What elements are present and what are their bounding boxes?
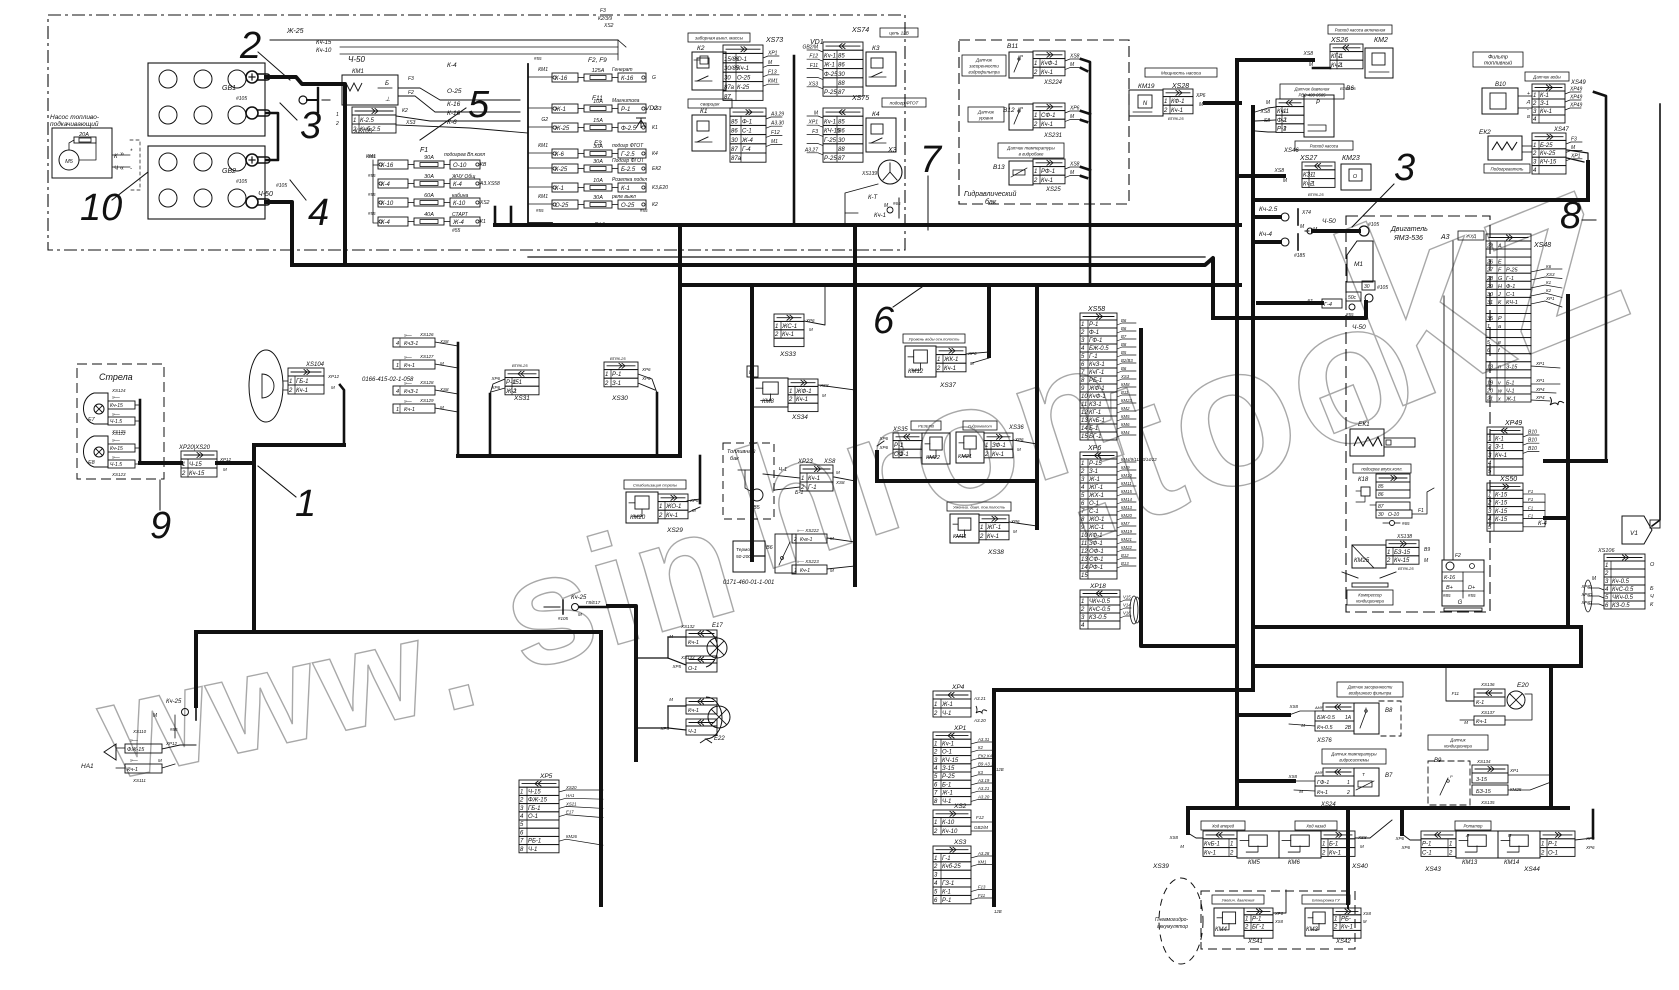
svg-text:ХS30: ХS30: [611, 395, 628, 402]
svg-text:1: 1: [1164, 99, 1167, 105]
svg-text:«: «: [120, 165, 124, 172]
svg-text:К-15: К-15: [1495, 492, 1508, 498]
svg-text:86: 86: [731, 129, 738, 135]
svg-text:ХР4: ХР4: [1535, 387, 1545, 392]
svg-text:Ж-4: Ж-4: [741, 138, 754, 144]
svg-text:GB2: GB2: [222, 168, 236, 175]
svg-text:V1: V1: [1630, 530, 1638, 537]
svg-text:КМ26: КМ26: [566, 834, 578, 839]
svg-text:#105: #105: [558, 616, 569, 621]
svg-text:Кч-1: Кч-1: [1476, 719, 1487, 725]
svg-text:Кч-2.5: Кч-2.5: [1259, 206, 1278, 213]
svg-text:2: 2: [1532, 151, 1537, 157]
svg-text:К-16: К-16: [447, 101, 461, 108]
svg-text:ГБ-1: ГБ-1: [296, 379, 309, 385]
svg-text:F11: F11: [810, 63, 818, 69]
svg-text:ЕК2: ЕК2: [652, 166, 661, 172]
svg-text:V16: V16: [1123, 611, 1131, 616]
svg-text:1: 1: [520, 789, 523, 795]
svg-text:КчС-0.5: КчС-0.5: [1089, 607, 1111, 613]
svg-text:Кч-1: Кч-1: [296, 388, 308, 394]
svg-text:КМ1: КМ1: [978, 859, 987, 864]
svg-text:ЖХ-1: ЖХ-1: [1088, 493, 1104, 499]
svg-text:ХS110: ХS110: [132, 729, 147, 734]
svg-text:2: 2: [774, 332, 779, 338]
svg-text:Р: Р: [1020, 106, 1023, 111]
svg-text:2: 2: [1033, 70, 1038, 76]
svg-text:ЖУД: ЖУД: [1465, 234, 1477, 239]
svg-text:КМ9: КМ9: [1121, 465, 1130, 470]
svg-text:Кч-1: Кч-1: [404, 363, 415, 369]
svg-text:ЯМЗ-536: ЯМЗ-536: [1393, 235, 1423, 242]
svg-text:ХS224: ХS224: [1043, 80, 1063, 86]
svg-text:ХР5: ХР5: [671, 664, 681, 669]
svg-text:Е7: Е7: [88, 417, 96, 423]
svg-text:ХР12: ХР12: [165, 741, 178, 746]
svg-text:ХS27: ХS27: [1299, 155, 1318, 162]
svg-text:12В: 12В: [994, 909, 1002, 914]
svg-text:ХS135: ХS135: [1480, 800, 1495, 805]
svg-text:Г-1: Г-1: [1089, 354, 1098, 360]
svg-text:#65: #65: [1402, 521, 1410, 526]
svg-text:Г-4: Г-4: [1324, 302, 1332, 308]
svg-text:КМ25: КМ25: [1510, 787, 1522, 792]
svg-text:ЖС-1: ЖС-1: [781, 324, 797, 330]
svg-text:1: 1: [934, 856, 937, 862]
svg-text:Е17: Е17: [712, 623, 723, 629]
svg-text:Ч-1.5: Ч-1.5: [110, 462, 122, 468]
svg-text:К6: К6: [1546, 264, 1552, 269]
svg-text:ХР1: ХР1: [1535, 378, 1545, 383]
svg-text:#185: #185: [1294, 253, 1305, 259]
svg-text:#55: #55: [534, 56, 542, 61]
svg-text:2: 2: [1244, 924, 1249, 930]
svg-text:ХР6: ХР6: [641, 367, 651, 372]
svg-text:10: 10: [80, 187, 122, 229]
svg-text:О-25: О-25: [555, 203, 569, 209]
svg-text:GB1: GB1: [222, 85, 236, 92]
svg-text:Пневмогидро-: Пневмогидро-: [1155, 917, 1188, 923]
svg-text:М: М: [1013, 529, 1017, 534]
svg-text:2: 2: [1386, 558, 1391, 564]
svg-text:Б-25: Б-25: [1540, 143, 1553, 149]
svg-text:#55: #55: [368, 173, 376, 178]
svg-text:88: 88: [838, 81, 845, 87]
svg-text:Кч-1: Кч-1: [824, 53, 836, 59]
svg-text:В2/В3: В2/В3: [1121, 358, 1133, 363]
svg-text:КМ8: КМ8: [762, 399, 775, 405]
svg-text:ХS129: ХS129: [419, 398, 434, 403]
svg-text:2: 2: [1487, 445, 1492, 451]
svg-text:КЗ-0.5: КЗ-0.5: [1089, 615, 1107, 621]
svg-text:А3.ХS58: А3.ХS58: [479, 181, 500, 187]
svg-text:ХS29: ХS29: [666, 527, 683, 534]
svg-text:К1: К1: [1546, 280, 1552, 285]
svg-text:РБ-1: РБ-1: [528, 839, 541, 845]
svg-text:15: 15: [1081, 573, 1088, 579]
svg-text:ХS123: ХS123: [111, 472, 126, 477]
svg-text:1: 1: [396, 407, 399, 413]
svg-text:2: 2: [1321, 850, 1326, 856]
svg-text:87а: 87а: [724, 85, 735, 91]
svg-text:КВ: КВ: [480, 162, 487, 168]
svg-text:З-1: З-1: [1540, 101, 1549, 107]
svg-text:ХS42: ХS42: [1335, 939, 1351, 945]
svg-text:кондиционера: кондиционера: [1444, 744, 1472, 749]
svg-text:КМ22: КМ22: [926, 455, 940, 461]
svg-text:ХS8: ХS8: [1303, 51, 1314, 57]
svg-text:3: 3: [300, 105, 321, 147]
svg-text:2: 2: [1080, 607, 1085, 613]
svg-text:В9 А3.15: В9 А3.15: [978, 762, 996, 767]
svg-text:ЖГ-1: ЖГ-1: [1088, 485, 1103, 491]
svg-text:#55: #55: [640, 208, 648, 213]
svg-text:М: М: [1360, 844, 1364, 849]
svg-text:Стрела: Стрела: [99, 372, 133, 382]
svg-text:КМ20: КМ20: [1121, 513, 1133, 518]
svg-text:14: 14: [1081, 565, 1088, 571]
svg-text:К-1: К-1: [1495, 436, 1504, 442]
svg-text:Расход насоса включения: Расход насоса включения: [1335, 28, 1386, 33]
svg-text:Е17: Е17: [566, 810, 574, 815]
svg-text:2: 2: [1080, 330, 1085, 336]
svg-text:2: 2: [658, 513, 663, 519]
svg-text:ХS8: ХS8: [1168, 835, 1178, 840]
svg-text:КМ12: КМ12: [908, 369, 924, 375]
svg-text:К2: К2: [652, 202, 658, 208]
svg-text:ХS122: ХS122: [111, 431, 126, 436]
svg-text:КМ21: КМ21: [1121, 537, 1133, 542]
svg-text:Р-1: Р-1: [612, 372, 621, 378]
svg-text:КМ2: КМ2: [1374, 37, 1388, 44]
svg-text:ХS124: ХS124: [111, 388, 126, 393]
svg-text:ЕК2.К4: ЕК2.К4: [978, 753, 993, 758]
svg-text:Кчб-25: Кчб-25: [942, 864, 961, 870]
svg-text:1: 1: [1541, 842, 1544, 848]
svg-text:подогрев Вп.колл: подогрев Вп.колл: [444, 152, 485, 158]
svg-text:1: 1: [1347, 780, 1350, 786]
svg-text:1: 1: [801, 476, 804, 482]
svg-text:В10: В10: [1495, 82, 1506, 88]
svg-text:30: 30: [1378, 512, 1384, 518]
svg-text:БГ-1: БГ-1: [1089, 434, 1102, 440]
svg-text:М: М: [331, 385, 335, 390]
svg-text:М: М: [1299, 789, 1303, 794]
svg-text:КчФ-1: КчФ-1: [1089, 394, 1106, 400]
svg-text:Ж-25: Ж-25: [286, 28, 304, 35]
svg-text:⊥: ⊥: [385, 96, 390, 103]
svg-text:ХР1: ХР1: [1570, 153, 1581, 159]
svg-text:#105: #105: [1377, 285, 1388, 291]
svg-text:ЖС-1: ЖС-1: [1088, 525, 1104, 531]
svg-text:Датчик: Датчик: [1449, 738, 1466, 743]
svg-text:АМР: АМР: [1314, 706, 1324, 710]
svg-text:#55: #55: [452, 228, 461, 234]
svg-text:1: 1: [1334, 917, 1337, 923]
svg-text:10: 10: [1081, 533, 1088, 539]
svg-text:Кч-1: Кч-1: [987, 534, 999, 540]
svg-text:Кч-1: Кч-1: [1495, 453, 1507, 459]
svg-text:Ж-4: Ж-4: [452, 220, 465, 226]
svg-text:ХР20|ХS20: ХР20|ХS20: [178, 445, 211, 451]
svg-text:2: 2: [1604, 571, 1609, 577]
svg-text:ХРЮ: ХРЮ: [1580, 600, 1592, 605]
svg-text:»—: »—: [130, 738, 139, 744]
svg-text:ХS25: ХS25: [1045, 187, 1061, 193]
svg-text:F1: F1: [1418, 508, 1424, 514]
svg-text:В7: В7: [1121, 334, 1127, 339]
svg-text:F1: F1: [1528, 497, 1534, 502]
svg-text:Датчик воды: Датчик воды: [1532, 75, 1561, 80]
svg-text:КМ19: КМ19: [1138, 83, 1155, 90]
svg-text:Кч-1: Кч-1: [1329, 850, 1341, 856]
svg-text:1: 1: [353, 118, 356, 124]
svg-text:КМ3: КМ3: [1306, 927, 1319, 933]
svg-text:РБ-: РБ-: [1341, 917, 1351, 923]
svg-text:К2: К2: [1546, 288, 1552, 293]
svg-text:ХS2: ХS2: [603, 23, 614, 29]
svg-text:В13: В13: [1121, 561, 1129, 566]
svg-text:К3: К3: [978, 770, 984, 775]
svg-text:К1: К1: [480, 219, 486, 225]
svg-text:87: 87: [724, 94, 731, 100]
svg-text:Р-25: Р-25: [824, 156, 837, 162]
svg-text:КМ7: КМ7: [1121, 521, 1130, 526]
svg-text:БГ-1: БГ-1: [1252, 924, 1265, 930]
svg-text:85: 85: [838, 119, 845, 125]
svg-text:О-1: О-1: [1089, 501, 1099, 507]
svg-text:В9: В9: [1424, 547, 1430, 553]
svg-text:#55: #55: [368, 211, 376, 216]
svg-text:КМ1: КМ1: [538, 67, 548, 73]
svg-text:10: 10: [1081, 394, 1088, 400]
svg-text:ХS24: ХS24: [1320, 802, 1336, 808]
svg-text:1: 1: [1034, 113, 1037, 119]
svg-text:КМ1: КМ1: [538, 194, 548, 200]
svg-text:Кчг-1: Кчг-1: [800, 537, 813, 543]
svg-text:ОФ-1: ОФ-1: [894, 452, 909, 458]
svg-text:Ч-15: Ч-15: [189, 462, 202, 468]
svg-text:топливный: топливный: [1484, 60, 1512, 67]
svg-text:уровня: уровня: [978, 116, 994, 121]
svg-text:НА1: НА1: [566, 793, 575, 798]
svg-text:1: 1: [289, 379, 292, 385]
svg-text:VD2: VD2: [645, 105, 658, 112]
svg-text:Ч-50: Ч-50: [348, 55, 366, 64]
svg-text:КчЗ-1: КчЗ-1: [404, 389, 418, 395]
svg-text:F3: F3: [408, 76, 414, 82]
svg-text:Кч-1: Кч-1: [737, 66, 749, 72]
svg-text:С-1: С-1: [1089, 509, 1099, 515]
svg-text:М: М: [669, 697, 673, 702]
svg-text:ХР4: ХР4: [1535, 395, 1545, 400]
svg-text:ХS39: ХS39: [1152, 863, 1169, 870]
svg-text:»—: »—: [112, 438, 121, 444]
svg-text:Кч-1: Кч-1: [127, 767, 138, 773]
svg-text:О: О: [1353, 174, 1358, 180]
svg-text:О: О: [1650, 562, 1655, 568]
svg-text:»—: »—: [130, 758, 139, 764]
svg-text:1: 1: [1081, 599, 1084, 605]
svg-text:F2: F2: [408, 90, 414, 96]
svg-text:Кч-1: Кч-1: [1341, 924, 1353, 930]
svg-text:КМ15: КМ15: [1121, 489, 1133, 494]
svg-text:Кч-1: Кч-1: [1317, 790, 1328, 796]
svg-text:ХS46: ХS46: [1283, 148, 1299, 154]
svg-text:Уменьш. давл. пов.полость: Уменьш. давл. пов.полость: [953, 505, 1005, 510]
svg-text:2: 2: [1448, 850, 1453, 856]
svg-text:ФЖ-15: ФЖ-15: [528, 798, 548, 804]
svg-text:ВТЯ6-25: ВТЯ6-25: [1398, 566, 1414, 571]
svg-text:КМ13: КМ13: [1462, 860, 1478, 866]
svg-text:ХS8: ХS8: [1287, 774, 1297, 779]
svg-text:ГФ-1: ГФ-1: [1317, 780, 1329, 786]
svg-text:Термоз: Термоз: [736, 547, 753, 553]
svg-text:К-4: К-4: [453, 182, 463, 188]
svg-text:Стабилизация стрелы: Стабилизация стрелы: [633, 483, 677, 488]
svg-text:2: 2: [933, 750, 938, 756]
svg-text:КФ-1: КФ-1: [1171, 99, 1185, 105]
svg-text:БЗ-15: БЗ-15: [1476, 789, 1492, 795]
svg-text:реле выкл: реле выкл: [611, 194, 636, 200]
svg-text:ХS132: ХS132: [680, 624, 695, 629]
svg-text:А3.20: А3.20: [977, 794, 990, 799]
svg-text:2: 2: [1163, 108, 1168, 114]
svg-text:ХS128: ХS128: [419, 380, 434, 385]
svg-text:ХS49: ХS49: [1570, 80, 1586, 86]
svg-text:Двигатель: Двигатель: [1390, 226, 1428, 233]
svg-text:2: 2: [181, 471, 186, 477]
svg-text:Кч-1: Кч-1: [1171, 108, 1183, 114]
svg-text:К2: К2: [697, 45, 705, 52]
svg-text:К-4: К-4: [1538, 521, 1548, 527]
svg-text:Кч-25: Кч-25: [1540, 151, 1556, 157]
svg-text:Ф-25: Ф-25: [824, 72, 838, 78]
svg-text:КчБ-1: КчБ-1: [1089, 418, 1105, 424]
svg-text:В5: В5: [1121, 350, 1127, 355]
svg-text:ХР18: ХР18: [1089, 583, 1106, 590]
svg-text:КчФ-1: КчФ-1: [1041, 61, 1058, 67]
svg-text:ХР49: ХР49: [1569, 87, 1582, 93]
svg-text:М: М: [1363, 919, 1367, 924]
svg-text:ХS8: ХS8: [1357, 835, 1367, 840]
svg-text:Датчик давления: Датчик давления: [1294, 87, 1330, 92]
svg-text:7: 7: [920, 139, 943, 181]
svg-text:Гидромолот: Гидромолот: [968, 424, 992, 429]
svg-text:КМ20: КМ20: [630, 515, 646, 521]
svg-text:V15: V15: [1123, 595, 1131, 600]
svg-text:1: 1: [937, 357, 940, 363]
svg-text:К3: К3: [872, 45, 880, 52]
svg-text:F1: F1: [420, 147, 428, 154]
svg-text:2: 2: [788, 397, 793, 403]
svg-text:К-Т: К-Т: [868, 195, 879, 201]
svg-text:2: 2: [1080, 469, 1085, 475]
svg-text:87: 87: [1378, 504, 1384, 510]
svg-text:ХS3: ХS3: [808, 81, 819, 87]
svg-text:ХS36: ХS36: [1008, 425, 1024, 431]
svg-text:Расход насоса: Расход насоса: [1310, 144, 1339, 149]
svg-text:ХS3: ХS3: [1545, 272, 1555, 277]
svg-text:1: 1: [1387, 550, 1390, 556]
svg-text:2: 2: [1346, 790, 1350, 796]
svg-text:ХР1: ХР1: [808, 120, 819, 126]
svg-text:Кч-1: Кч-1: [1041, 70, 1053, 76]
svg-text:О-10: О-10: [1388, 512, 1399, 518]
svg-text:кондиционера: кондиционера: [1356, 599, 1384, 604]
svg-text:Кч-1: Кч-1: [1204, 850, 1216, 856]
svg-text:В: В: [1527, 114, 1530, 119]
svg-text:ХS134: ХS134: [1476, 759, 1491, 764]
svg-text:Г-25: Г-25: [824, 138, 837, 144]
svg-text:В5: В5: [753, 505, 761, 511]
svg-text:Р-1: Р-1: [942, 898, 951, 904]
svg-text:ХР6: ХР6: [490, 376, 500, 381]
svg-text:СФ-1: СФ-1: [1089, 557, 1103, 563]
svg-text:ВТЯ6-25: ВТЯ6-25: [1168, 116, 1184, 121]
svg-text:ХР6: ХР6: [1585, 845, 1595, 850]
svg-text:А3.28: А3.28: [977, 851, 990, 856]
svg-text:Ж-1: Ж-1: [941, 702, 953, 708]
svg-text:F2, F9: F2, F9: [588, 57, 607, 64]
svg-text:Датчик температуры: Датчик температуры: [1330, 752, 1376, 757]
svg-text:»— ХS222: »— ХS222: [797, 528, 819, 533]
svg-text:А3.29: А3.29: [770, 112, 784, 118]
svg-text:ХР49: ХР49: [1569, 103, 1582, 109]
svg-text:ХР49: ХР49: [1504, 420, 1522, 427]
svg-text:ЕК2: ЕК2: [1479, 129, 1491, 136]
svg-text:ХS73: ХS73: [765, 37, 783, 44]
svg-text:Р-1: Р-1: [1548, 842, 1557, 848]
svg-text:2: 2: [288, 388, 293, 394]
svg-text:ЕК1: ЕК1: [1358, 421, 1370, 428]
svg-text:ХS8: ХS8: [1069, 54, 1080, 60]
svg-text:1: 1: [1230, 842, 1233, 848]
svg-text:Ход назад: Ход назад: [1305, 824, 1326, 829]
svg-text:М: М: [1464, 720, 1468, 725]
svg-text:1: 1: [1245, 917, 1248, 923]
svg-text:ХS26: ХS26: [1330, 37, 1348, 44]
svg-text:К-2.5: К-2.5: [360, 118, 375, 124]
svg-text:В6: В6: [766, 545, 774, 551]
svg-text:С-1: С-1: [742, 129, 752, 135]
svg-text:Кч-15: Кч-15: [110, 403, 123, 409]
svg-text:2: 2: [335, 121, 339, 127]
svg-text:Кч-25: Кч-25: [166, 699, 182, 705]
svg-text:ХS106: ХS106: [1597, 548, 1615, 554]
svg-text:М: М: [158, 758, 162, 763]
svg-text:1: 1: [295, 483, 316, 525]
svg-text:М: М: [809, 327, 813, 332]
svg-text:О-1: О-1: [1548, 850, 1558, 856]
svg-text:ЖК-1: ЖК-1: [943, 357, 958, 363]
svg-text:Х74: Х74: [1301, 210, 1311, 216]
svg-text:Б-1: Б-1: [942, 782, 951, 788]
svg-text:F13: F13: [978, 885, 986, 890]
svg-text:ЖО-1: ЖО-1: [1088, 517, 1104, 523]
svg-text:1: 1: [789, 389, 792, 395]
svg-text:К4: К4: [872, 111, 880, 118]
svg-text:30А: 30А: [593, 195, 603, 201]
svg-text:Датчик температуры: Датчик температуры: [1006, 146, 1055, 151]
svg-text:КМ1: КМ1: [366, 154, 376, 160]
svg-text:сварщик: сварщик: [700, 103, 720, 108]
svg-text:2: 2: [933, 864, 938, 870]
svg-text:Подогреватель: Подогреватель: [1491, 167, 1525, 172]
svg-text:ЗФ-1: ЗФ-1: [992, 443, 1006, 449]
svg-text:ХS34: ХS34: [791, 414, 808, 421]
svg-text:N: N: [1143, 101, 1148, 107]
